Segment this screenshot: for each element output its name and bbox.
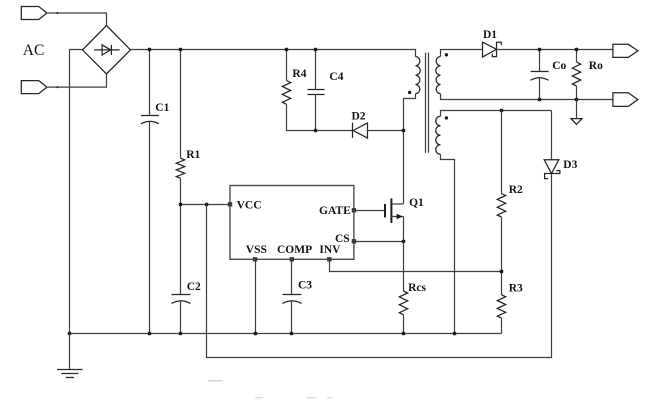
svg-text:VSS: VSS	[246, 244, 267, 256]
node Co bottom	[538, 98, 542, 102]
node bus/C1	[148, 332, 152, 336]
svg-text:VCC: VCC	[237, 200, 262, 212]
wire Co to return	[539, 78, 541, 100]
node R1/VCC	[179, 203, 183, 207]
wire Rcs to ground bus	[403, 315, 405, 334]
svg-text:D1: D1	[483, 29, 497, 41]
bridge rectifier BR1 diamond	[83, 26, 131, 75]
wire CS pin to source node	[354, 241, 404, 243]
node divider/INV	[500, 270, 504, 274]
node bus/C2	[179, 332, 183, 336]
capacitor C1	[141, 116, 159, 124]
node drain/D2	[402, 129, 406, 133]
capacitor C3	[283, 295, 302, 304]
earth ground symbol	[57, 370, 83, 378]
wire bridge negative to ground bus	[70, 50, 83, 334]
svg-text:R4: R4	[292, 68, 306, 80]
svg-text:C1: C1	[155, 102, 169, 114]
diode D2	[353, 123, 368, 139]
transistor Q1 MOSFET	[385, 198, 391, 223]
wire aux top to D3	[441, 111, 552, 117]
node aux/R2	[500, 109, 504, 113]
svg-text:Ro: Ro	[589, 60, 603, 72]
svg-text:AC: AC	[23, 42, 45, 59]
node Ro bottom	[575, 98, 579, 102]
aux phase dot	[445, 116, 448, 119]
bridge rectifier BR1 inner diode	[94, 45, 120, 55]
wire aux bottom to ground bus	[441, 154, 455, 333]
svg-text:C2: C2	[187, 281, 201, 293]
transformer T1 core	[426, 53, 429, 153]
capacitor Co branch	[539, 50, 541, 72]
resistor R3	[497, 295, 505, 318]
wire main DC rail	[131, 50, 416, 57]
svg-text:COMP: COMP	[277, 244, 312, 256]
wire VSS to ground bus	[255, 260, 257, 334]
rail node C4	[314, 48, 318, 52]
Q1 source tap	[391, 216, 403, 218]
svg-text:C4: C4	[329, 71, 343, 83]
wire R1 to VCC node and down to C2	[180, 178, 182, 294]
pin CS	[352, 239, 356, 243]
wire R4 bottom to snubber node	[287, 104, 353, 130]
wire INV to divider	[330, 260, 502, 272]
svg-text:Co: Co	[552, 60, 566, 72]
wire J1 to bridge top vertex	[47, 13, 107, 26]
resistor R1	[176, 158, 184, 178]
wire secondary top to D1	[441, 50, 483, 57]
output port J4 (-)	[613, 93, 638, 107]
primary phase dot	[408, 91, 411, 94]
wire R2 to R3	[501, 217, 503, 295]
resistor Ro	[572, 62, 580, 86]
ground bus	[70, 333, 502, 335]
wire C3 to ground bus	[291, 301, 293, 334]
svg-text:D2: D2	[352, 111, 366, 123]
diode D1 (schottky)	[483, 42, 502, 57]
pin GATE	[352, 208, 356, 212]
rail node R4	[285, 48, 289, 52]
input port J1 (AC line top)	[21, 7, 47, 20]
svg-text:R2: R2	[509, 184, 523, 196]
wire C2 to ground bus	[180, 301, 182, 334]
svg-text:Q1: Q1	[409, 197, 424, 209]
pin COMP	[290, 257, 294, 261]
wire COMP to C3	[291, 260, 293, 295]
node bus/C3	[290, 332, 294, 336]
wire R3 to ground bus	[501, 318, 503, 333]
signal ground symbol	[571, 119, 582, 125]
svg-text:R1: R1	[186, 149, 200, 161]
node bus/Rcs	[402, 332, 406, 336]
wire to R2	[501, 111, 503, 194]
input port J2 (AC line bottom)	[21, 81, 47, 94]
wire C1 branch top	[149, 50, 151, 116]
earth ground stem	[69, 334, 71, 370]
svg-text:GATE: GATE	[319, 205, 351, 217]
rail node R1	[179, 48, 183, 52]
wire J2 to bridge bottom vertex	[47, 74, 107, 87]
wire secondary bottom to output return	[441, 94, 613, 100]
wire VCC feed	[181, 204, 231, 206]
wire rail to R4	[286, 50, 288, 81]
secondary phase dot	[445, 53, 448, 56]
wire D3 top to aux node	[551, 111, 553, 160]
wire primary bottom to Q1 drain	[404, 94, 416, 204]
wire D1 cathode to output port	[497, 49, 613, 51]
svg-text:R3: R3	[509, 283, 523, 295]
wire Ro to return	[576, 86, 578, 100]
transformer T1 primary winding	[416, 57, 421, 94]
output port J3 (+)	[613, 44, 638, 57]
wire C1 to ground bus	[149, 122, 151, 334]
resistor Ro branch	[576, 50, 578, 63]
pin VSS	[253, 257, 257, 261]
svg-text:INV: INV	[319, 244, 341, 256]
wire source to CS node	[403, 217, 405, 242]
svg-text:C3: C3	[298, 280, 312, 292]
transformer T1 aux winding	[436, 116, 441, 154]
pin VCC	[228, 202, 232, 206]
resistor R4	[282, 81, 290, 105]
wire rail to R1	[180, 50, 182, 159]
pin INV	[327, 257, 331, 261]
wire C4 to snubber node	[315, 95, 317, 131]
resistor Rcs	[399, 291, 407, 315]
wire to signal ground	[576, 100, 578, 119]
Q1 source arrow	[397, 214, 403, 220]
node dot on top AC wire	[56, 12, 58, 14]
node dot on bottom AC wire	[56, 86, 58, 88]
capacitor Co	[531, 72, 549, 81]
diode D3 (schottky)	[544, 160, 560, 179]
wire rail to C4	[315, 50, 317, 90]
node bus/earth	[68, 332, 72, 336]
Q1 drain tap	[391, 203, 403, 205]
svg-text:Rcs: Rcs	[408, 282, 426, 294]
node bus/VSS	[254, 332, 258, 336]
resistor R2	[497, 194, 505, 217]
svg-text:D3: D3	[563, 159, 577, 171]
transformer T1 secondary winding	[436, 57, 441, 94]
wire GATE pin to Q1 gate	[354, 210, 385, 212]
capacitor C4	[308, 90, 325, 95]
op-amp U1 controller IC body	[230, 186, 354, 260]
svg-text:CS: CS	[335, 233, 350, 245]
node Co top	[538, 48, 542, 52]
wire D2 anode to drain node	[368, 130, 404, 132]
rail node C1	[148, 48, 152, 52]
node snubber C4 bottom	[314, 129, 318, 133]
capacitor C2	[172, 295, 191, 304]
faint caption remnants	[208, 380, 332, 398]
wire CS node to Rcs	[403, 242, 405, 292]
node Ro top	[575, 48, 579, 52]
node VCC/D3 return	[205, 203, 209, 207]
node CS/source	[402, 240, 406, 244]
wire VCC return loop to D3	[207, 174, 552, 358]
node bus/aux return	[453, 332, 457, 336]
